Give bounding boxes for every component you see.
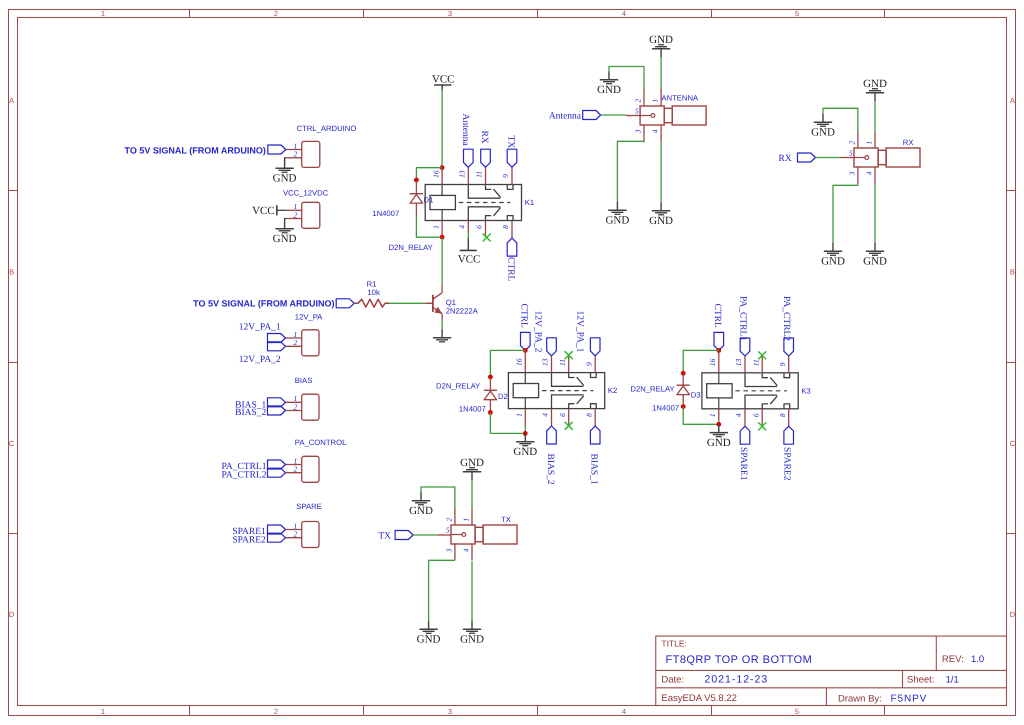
svg-text:D: D — [9, 610, 15, 619]
pin 1 — [286, 202, 302, 211]
svg-text:TX: TX — [506, 136, 516, 149]
ground — [649, 34, 673, 57]
svg-text:3: 3 — [634, 129, 643, 134]
pin 6 no-connect — [475, 221, 491, 242]
wire R1 to Q1 base — [390, 302, 425, 304]
pin 16 — [708, 350, 719, 372]
label 1N4007 — [459, 404, 486, 413]
pin 5 — [626, 106, 640, 115]
node junction — [440, 165, 445, 170]
wire K1 pin1 to Q1 collector — [441, 237, 443, 285]
pin 9 — [584, 356, 595, 373]
pin 9 — [778, 356, 789, 373]
svg-text:3: 3 — [847, 171, 856, 176]
svg-text:2: 2 — [294, 338, 298, 347]
svg-text:5: 5 — [849, 148, 853, 157]
net flag PA_CTRL2 — [781, 296, 793, 356]
svg-text:1: 1 — [431, 225, 440, 229]
svg-text:10k: 10k — [367, 288, 380, 297]
svg-text:11: 11 — [558, 359, 567, 366]
svg-text:PA_CONTROL: PA_CONTROL — [295, 438, 347, 447]
pin 5 — [437, 525, 451, 535]
svg-text:GND: GND — [811, 127, 835, 139]
ground — [863, 243, 887, 268]
wire — [718, 420, 720, 424]
svg-text:GND: GND — [417, 634, 441, 646]
ground — [605, 202, 629, 227]
svg-text:2: 2 — [274, 9, 278, 18]
net flag PA_CTRL1 — [221, 460, 285, 472]
svg-text:1: 1 — [101, 9, 105, 18]
net flag RX — [479, 131, 490, 168]
net flag PA_CTRL1 — [738, 296, 750, 356]
svg-text:SPARE2: SPARE2 — [782, 447, 792, 481]
svg-text:VCC_12VDC: VCC_12VDC — [283, 189, 329, 198]
svg-text:1: 1 — [515, 413, 524, 417]
svg-text:CTRL_ARDUINO: CTRL_ARDUINO — [297, 124, 357, 133]
svg-text:B: B — [9, 268, 14, 277]
svg-text:D: D — [1010, 610, 1016, 619]
pin 6 no-connect — [558, 409, 573, 430]
pin 4 — [541, 409, 552, 426]
pin 11 — [475, 167, 486, 184]
node diode D1 cathode — [414, 178, 419, 183]
wire pin 4 to ground — [874, 184, 876, 243]
wire pin 2 to ground — [609, 67, 644, 90]
svg-text:K2: K2 — [608, 386, 617, 395]
wire TX flag to pin 5 — [413, 534, 437, 536]
svg-text:BIAS: BIAS — [295, 376, 313, 385]
svg-text:4: 4 — [651, 129, 660, 133]
pin 6 no-connect — [751, 409, 766, 431]
svg-text:9: 9 — [584, 362, 593, 366]
svg-text:BIAS_1: BIAS_1 — [588, 454, 598, 485]
pin 4 — [865, 167, 876, 184]
connector P3 12V_PA — [295, 313, 324, 356]
node junction — [523, 431, 528, 436]
svg-text:VCC: VCC — [432, 73, 455, 85]
pin 4 — [462, 544, 473, 560]
net flag 12V_PA_1 — [239, 322, 286, 342]
svg-text:BIAS_2: BIAS_2 — [235, 408, 266, 418]
svg-text:2: 2 — [294, 150, 298, 159]
svg-text:12V_PA: 12V_PA — [295, 313, 324, 322]
connector P1 CTRL_ARDUINO — [297, 124, 357, 167]
svg-text:GND: GND — [460, 457, 484, 469]
net flag TX — [506, 136, 517, 168]
svg-text:K3: K3 — [801, 386, 810, 395]
ground — [409, 493, 433, 518]
svg-text:1/1: 1/1 — [946, 674, 959, 685]
pin 2 — [286, 530, 302, 539]
power flag VCC — [458, 238, 481, 265]
pin 9 — [501, 167, 512, 184]
svg-text:GND: GND — [863, 256, 887, 268]
svg-text:D2N_RELAY: D2N_RELAY — [389, 243, 433, 252]
svg-text:GND: GND — [273, 173, 297, 185]
wire pin 4 to ground — [471, 561, 473, 621]
svg-text:PA_CTRL1: PA_CTRL1 — [738, 296, 748, 341]
svg-text:9: 9 — [778, 362, 787, 366]
label D1 — [424, 195, 434, 204]
pin 4 — [458, 221, 469, 239]
svg-text:1.0: 1.0 — [971, 654, 984, 665]
pin 4 — [651, 125, 662, 142]
label 1N4007 — [652, 404, 679, 413]
pin 1 — [651, 89, 662, 106]
svg-text:GND: GND — [649, 34, 673, 46]
connector P6 SPARE — [296, 502, 322, 547]
svg-text:4: 4 — [622, 9, 626, 18]
net flag TX — [378, 531, 413, 542]
svg-text:Date:: Date: — [661, 674, 684, 685]
node diode D3 anode — [681, 404, 686, 409]
svg-text:TITLE:: TITLE: — [661, 638, 687, 648]
relay K3 — [702, 373, 811, 409]
net flag Antenna — [460, 114, 473, 168]
ground — [597, 71, 621, 96]
svg-text:TO 5V SIGNAL (FROM ARDUINO): TO 5V SIGNAL (FROM ARDUINO) — [193, 298, 334, 308]
svg-text:2021-12-23: 2021-12-23 — [705, 674, 769, 686]
pin 1 — [286, 456, 302, 465]
pin 2 — [634, 89, 645, 106]
pin 1 — [462, 508, 473, 525]
diode D3 1N4007 — [677, 373, 690, 406]
net flag SPARE2 — [232, 533, 285, 545]
svg-text:TO 5V SIGNAL (FROM ARDUINO): TO 5V SIGNAL (FROM ARDUINO) — [125, 145, 266, 155]
svg-text:RX: RX — [778, 154, 791, 164]
svg-text:12V_PA_1: 12V_PA_1 — [575, 311, 585, 353]
pin 16 — [515, 350, 526, 372]
svg-text:GND: GND — [649, 215, 673, 227]
net flag CTRL — [712, 304, 724, 351]
svg-text:GND: GND — [707, 437, 731, 449]
svg-text:16: 16 — [708, 358, 717, 366]
svg-text:6: 6 — [751, 413, 760, 417]
node diode D3 cathode — [681, 371, 686, 376]
svg-text:11: 11 — [751, 359, 760, 366]
wire diode loop bottom — [416, 217, 442, 238]
svg-text:Sheet:: Sheet: — [907, 674, 934, 685]
pin 1 — [431, 221, 442, 238]
diode D2 1N4007 — [484, 377, 497, 413]
pin 2 — [444, 508, 455, 525]
net flag BIAS_1 — [588, 426, 600, 485]
svg-text:ANTENNA: ANTENNA — [661, 93, 699, 102]
svg-text:SPARE: SPARE — [296, 502, 322, 511]
wire pin 1 to ground — [874, 101, 876, 131]
wire diode loop top — [490, 350, 525, 377]
svg-text:12V_PA_1: 12V_PA_1 — [239, 322, 281, 332]
wire Q1 emitter to ground — [441, 320, 443, 330]
wire pin 3 to ground — [833, 184, 858, 243]
svg-text:GND: GND — [273, 233, 297, 245]
ground — [513, 433, 537, 458]
svg-text:CTRL: CTRL — [518, 304, 528, 328]
pin 1 — [286, 141, 302, 150]
svg-text:6: 6 — [558, 413, 567, 417]
pin 13 — [541, 356, 552, 373]
svg-text:1N4007: 1N4007 — [372, 209, 399, 218]
pin 2 — [286, 150, 302, 159]
pin 3 — [634, 125, 645, 142]
net flag CTRL — [506, 238, 517, 281]
wire — [285, 158, 286, 160]
svg-text:GND: GND — [863, 78, 887, 90]
svg-text:EasyEDA V5.8.22: EasyEDA V5.8.22 — [661, 693, 737, 704]
svg-text:5: 5 — [795, 9, 799, 18]
net flag SPARE1 — [738, 426, 750, 480]
net flag CTRL — [518, 304, 530, 351]
svg-text:1N4007: 1N4007 — [459, 404, 486, 413]
svg-text:GND: GND — [597, 84, 621, 96]
wire VCC to K1 pin 16 — [441, 91, 443, 168]
net flag RX — [778, 153, 815, 164]
svg-text:REV:: REV: — [942, 654, 964, 665]
svg-text:8: 8 — [778, 413, 787, 417]
label D2N_RELAY — [630, 385, 674, 394]
svg-text:8: 8 — [501, 225, 510, 229]
diode D1 1N4007 — [410, 180, 423, 217]
wire RX flag to pin 5 — [816, 157, 840, 159]
wire — [524, 426, 526, 433]
pin 4 — [734, 409, 745, 426]
wire — [285, 219, 286, 221]
svg-text:2: 2 — [634, 99, 643, 103]
wire pin 4 to ground — [660, 142, 662, 202]
svg-text:4: 4 — [541, 413, 550, 417]
svg-text:2N2222A: 2N2222A — [446, 307, 479, 316]
pin 11 no-connect — [751, 351, 766, 372]
svg-text:5: 5 — [795, 707, 799, 716]
svg-text:SPARE2: SPARE2 — [232, 535, 266, 545]
pin 8 — [584, 409, 595, 426]
ground — [460, 621, 484, 646]
svg-text:2: 2 — [274, 707, 278, 716]
svg-text:2: 2 — [294, 465, 298, 474]
pin 1 — [515, 409, 526, 426]
svg-text:16: 16 — [431, 170, 440, 178]
svg-text:4: 4 — [462, 548, 471, 552]
pin 2 — [286, 338, 302, 347]
svg-text:5: 5 — [446, 525, 450, 534]
pin 13 — [734, 356, 745, 373]
svg-text:2: 2 — [294, 210, 298, 219]
svg-text:F5NPV: F5NPV — [891, 693, 928, 704]
node diode D2 cathode — [488, 375, 493, 380]
wire pin 2 to ground — [823, 108, 858, 131]
wire diode loop top — [416, 168, 442, 180]
label D2 — [498, 392, 508, 401]
ground — [821, 243, 845, 268]
svg-text:3: 3 — [448, 9, 452, 18]
svg-text:K1: K1 — [525, 198, 534, 207]
net flag SPARE2 — [782, 426, 794, 480]
svg-text:PA_CTRL2: PA_CTRL2 — [781, 296, 791, 341]
svg-text:RX: RX — [903, 138, 914, 147]
wire pin 1 to ground — [660, 57, 662, 89]
pin 2 — [286, 402, 302, 411]
label 1N4007 — [372, 209, 399, 218]
svg-text:2: 2 — [294, 530, 298, 539]
svg-text:CTRL: CTRL — [712, 304, 722, 328]
net flag BIAS_2 — [235, 406, 285, 418]
wire pin 3 to ground — [617, 141, 644, 202]
pin 2 — [847, 131, 858, 148]
svg-text:12V_PA_2: 12V_PA_2 — [533, 311, 543, 353]
svg-text:6: 6 — [475, 225, 484, 229]
pin 3 — [444, 544, 455, 560]
svg-text:12V_PA_2: 12V_PA_2 — [239, 355, 281, 365]
ground — [273, 160, 297, 185]
svg-text:13: 13 — [734, 358, 743, 366]
svg-text:Drawn By:: Drawn By: — [838, 693, 882, 704]
connector RX — [854, 138, 920, 167]
net flag BIAS_2 — [545, 426, 556, 485]
svg-text:C: C — [9, 439, 15, 448]
pin 1 — [865, 131, 876, 148]
wire pin 3 to ground — [429, 560, 455, 621]
svg-text:1: 1 — [865, 141, 874, 145]
pin 1 — [286, 394, 302, 403]
svg-text:D2N_RELAY: D2N_RELAY — [436, 381, 480, 390]
node diode D2 anode — [488, 410, 493, 415]
svg-text:1: 1 — [101, 707, 105, 716]
svg-text:8: 8 — [584, 413, 593, 417]
node junction — [440, 235, 445, 240]
svg-text:PA_CTRL2: PA_CTRL2 — [221, 471, 266, 481]
pin 8 — [501, 221, 512, 239]
pin 3 — [847, 167, 858, 184]
pin 8 — [778, 409, 789, 426]
svg-text:5: 5 — [635, 106, 639, 115]
relay K1 — [425, 185, 534, 221]
svg-text:3: 3 — [444, 548, 453, 553]
svg-text:3: 3 — [448, 707, 452, 716]
label D2N_RELAY — [389, 243, 433, 252]
title block — [656, 636, 1007, 705]
pin 5 — [840, 148, 854, 157]
svg-text:VCC: VCC — [252, 205, 275, 217]
power flag VCC — [252, 205, 286, 217]
svg-text:13: 13 — [541, 358, 550, 366]
connector TX — [451, 515, 517, 544]
svg-text:BIAS_2: BIAS_2 — [545, 454, 555, 485]
pin 13 — [458, 167, 469, 184]
svg-text:GND: GND — [605, 215, 629, 227]
pin 1 — [286, 330, 302, 339]
svg-text:D2N_RELAY: D2N_RELAY — [630, 385, 674, 394]
wire diode loop top — [683, 350, 719, 373]
wire pin 1 to ground — [471, 480, 473, 508]
ground — [707, 424, 731, 449]
svg-text:2: 2 — [294, 402, 298, 411]
net flag BIAS_1 — [235, 398, 285, 411]
svg-text:4: 4 — [622, 707, 626, 716]
svg-text:4: 4 — [865, 171, 874, 175]
svg-text:4: 4 — [458, 225, 467, 229]
transistor Q1 2N2222A — [425, 285, 479, 319]
pin 11 no-connect — [558, 351, 573, 372]
svg-text:13: 13 — [458, 170, 467, 178]
svg-text:FT8QRP TOP OR BOTTOM: FT8QRP TOP OR BOTTOM — [666, 654, 813, 666]
svg-text:D3: D3 — [691, 391, 701, 400]
node junction — [523, 348, 528, 353]
svg-text:1: 1 — [708, 413, 717, 417]
net flag TO 5V SIGNAL (FROM ARDUINO) — [125, 145, 286, 155]
svg-text:C: C — [1010, 439, 1016, 448]
wire diode loop bottom — [683, 407, 719, 425]
ground — [649, 203, 673, 228]
svg-text:16: 16 — [515, 358, 524, 366]
ground — [863, 78, 887, 101]
svg-text:CTRL: CTRL — [506, 257, 516, 281]
connector P5 PA_CONTROL — [295, 438, 347, 482]
svg-text:9: 9 — [501, 174, 510, 178]
node junction — [716, 422, 721, 427]
connector P2 VCC_12VDC — [283, 189, 329, 229]
svg-text:GND: GND — [409, 505, 433, 517]
svg-text:2: 2 — [444, 518, 453, 522]
pin 1 — [708, 409, 719, 420]
svg-text:D2: D2 — [498, 392, 508, 401]
pin 2 — [286, 210, 302, 219]
ground — [273, 221, 297, 246]
svg-text:A: A — [1010, 96, 1015, 105]
resistor R1 10k — [354, 280, 389, 308]
ground — [433, 330, 451, 342]
label D2N_RELAY — [436, 381, 480, 390]
power flag VCC — [432, 73, 455, 90]
pin 16 — [431, 168, 442, 185]
net flag 12V_PA_1 — [575, 311, 600, 356]
net flag 12V_PA_2 — [533, 311, 557, 356]
svg-text:Antenna: Antenna — [460, 114, 470, 147]
net flag PA_CTRL2 — [221, 468, 285, 480]
svg-text:GND: GND — [460, 634, 484, 646]
net flag SPARE1 — [232, 525, 285, 537]
wire Antenna flag to pin 5 — [601, 114, 626, 116]
svg-text:RX: RX — [479, 131, 489, 144]
svg-text:Antenna: Antenna — [549, 112, 582, 122]
pin 1 — [286, 521, 302, 530]
svg-text:TX: TX — [501, 515, 511, 524]
pin 2 — [286, 465, 302, 474]
net flag TO 5V SIGNAL (FROM ARDUINO) — [193, 298, 354, 308]
svg-text:1: 1 — [651, 99, 660, 103]
svg-text:2: 2 — [847, 141, 856, 145]
svg-text:11: 11 — [475, 171, 484, 178]
connector P4 BIAS — [295, 376, 319, 420]
svg-text:1N4007: 1N4007 — [652, 404, 679, 413]
ground — [417, 621, 441, 646]
net flag Antenna — [549, 111, 601, 122]
svg-text:GND: GND — [513, 446, 537, 458]
svg-text:VCC: VCC — [458, 253, 481, 265]
connector ANTENNA — [640, 93, 706, 125]
svg-text:1: 1 — [462, 518, 471, 522]
svg-text:4: 4 — [734, 413, 743, 417]
node junction — [716, 348, 721, 353]
svg-text:B: B — [1010, 268, 1015, 277]
svg-text:TX: TX — [378, 532, 391, 542]
wire diode loop bottom — [490, 413, 525, 434]
relay K2 — [508, 373, 617, 409]
wire pin 2 to ground — [421, 487, 455, 508]
ground — [460, 457, 484, 480]
svg-text:A: A — [9, 96, 14, 105]
net flag 12V_PA_2 — [239, 342, 286, 365]
